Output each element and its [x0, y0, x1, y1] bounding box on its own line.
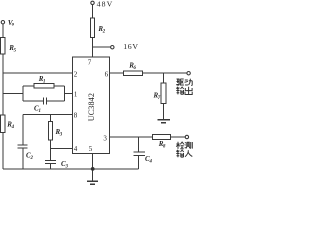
- svg-text:2: 2: [30, 156, 34, 161]
- svg-text:2: 2: [102, 29, 106, 34]
- svg-text:1: 1: [43, 80, 45, 85]
- svg-text:4: 4: [149, 159, 153, 164]
- svg-text:4: 4: [74, 145, 78, 153]
- svg-text:1: 1: [39, 109, 41, 114]
- svg-text:1: 1: [74, 90, 78, 98]
- svg-text:3: 3: [65, 164, 69, 169]
- svg-text:6: 6: [134, 66, 137, 71]
- svg-text:5: 5: [14, 48, 17, 53]
- svg-text:7: 7: [158, 96, 161, 101]
- svg-text:o: o: [12, 23, 15, 28]
- svg-text:UC3842: UC3842: [87, 93, 96, 121]
- svg-text:48V: 48V: [97, 0, 114, 9]
- svg-text:5: 5: [89, 145, 93, 153]
- svg-text:2: 2: [74, 71, 78, 79]
- svg-text:3: 3: [103, 135, 107, 143]
- svg-text:8: 8: [74, 112, 78, 120]
- svg-text:7: 7: [88, 59, 92, 67]
- svg-text:16V: 16V: [123, 42, 139, 51]
- svg-text:6: 6: [105, 71, 109, 79]
- svg-text:8: 8: [163, 145, 166, 150]
- svg-text:4: 4: [11, 125, 15, 130]
- svg-text:3: 3: [59, 133, 63, 138]
